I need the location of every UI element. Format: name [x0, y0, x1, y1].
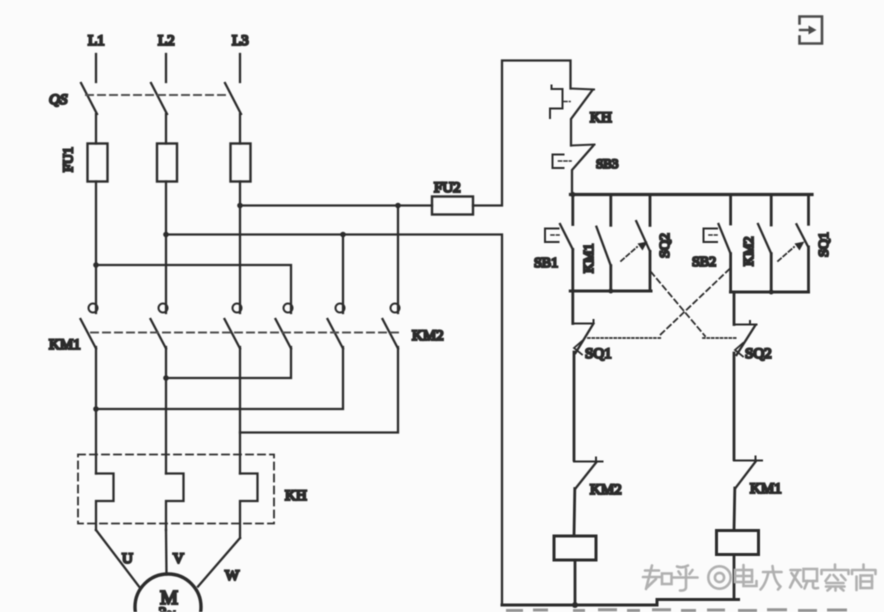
wire coil KM1 to rail — [733, 555, 736, 600]
junction KM2 feed B — [340, 232, 346, 238]
wire L3 drop — [239, 54, 241, 82]
wire bottom rail — [502, 600, 739, 606]
fuse FU1 — [62, 144, 251, 182]
heater element U — [96, 474, 114, 531]
contactor KM1 aux contact — [582, 195, 611, 292]
thermal relay KH contact — [550, 86, 612, 146]
wire L1 drop — [95, 54, 97, 82]
wire SQ2 to KM1 interlock — [733, 353, 736, 460]
wire phase B feed — [166, 235, 502, 606]
bus row2 right — [731, 291, 809, 294]
wire KM2 output crossover 1 — [166, 347, 291, 378]
watermark glyph zhi — [643, 566, 672, 590]
coil KM2 — [554, 536, 596, 560]
wire KM2 contact feeds — [343, 206, 398, 314]
heater element V — [166, 474, 184, 531]
wire KM1 interlock to coil — [733, 488, 737, 531]
junction KM1aux row2 — [608, 289, 613, 294]
junction crossover2 — [93, 406, 99, 412]
bus row2 left — [570, 290, 651, 293]
linkage dashed cross B — [659, 269, 730, 336]
motor M — [135, 574, 201, 612]
contactor KM2 main contacts — [276, 304, 444, 349]
junction crossover1 — [163, 375, 169, 381]
watermark glyph at — [708, 566, 730, 588]
wire phase A feed — [96, 265, 291, 313]
junction KM2aux row2 — [769, 290, 774, 295]
wire KM1 outputs down — [96, 347, 240, 474]
limit switch SQ2 NO — [621, 195, 673, 292]
contactor KM2 interlock contact — [574, 458, 622, 499]
fuse FU2 — [432, 180, 473, 215]
wire SB2 group down — [733, 292, 736, 325]
disconnect switch QS — [49, 83, 241, 114]
watermark glyph dian — [735, 565, 757, 586]
wire FU2 to control riser — [473, 61, 571, 206]
watermark glyph guan2 — [852, 565, 876, 591]
push button SB3 — [553, 145, 619, 196]
wire FU1 outputs — [96, 182, 240, 314]
limit switch SQ1 NC — [573, 320, 612, 362]
contactor KM1 interlock contact — [734, 457, 782, 498]
wire KM2 interlock to coil — [573, 489, 577, 537]
junction coil KM2 rail — [572, 602, 578, 608]
bus control top — [571, 193, 813, 196]
contactor KM1 main contacts — [49, 304, 242, 354]
limit switch SQ1 NO — [778, 195, 832, 293]
watermark glyph cha — [822, 565, 849, 591]
push button SB2 — [692, 195, 731, 293]
junction bus SB3 — [570, 192, 575, 197]
linkage dotted SQ1 — [588, 337, 662, 339]
icon export arrow — [800, 17, 823, 44]
wire W to motor — [198, 538, 240, 587]
junction L1 crossover feed — [93, 262, 99, 268]
wire SQ1 to KM2 interlock — [573, 352, 576, 460]
wire phase C feed to FU2 — [240, 204, 432, 206]
heater element W — [240, 474, 258, 539]
watermark glyph guan — [790, 569, 818, 589]
wire L2 drop — [165, 54, 167, 82]
wire coil KM2 to rail — [574, 560, 577, 605]
linkage dashes main contacts — [91, 332, 399, 334]
push button SB1 — [534, 195, 573, 292]
wire QS to FU1 — [96, 114, 240, 144]
linkage dashed cross A — [651, 272, 705, 336]
watermark glyph hu — [673, 566, 698, 591]
wire KM2 output crossover 2 — [96, 347, 343, 409]
junction L3/FU2 wire — [237, 203, 243, 209]
coil KM1 — [717, 531, 759, 555]
wire SB1 group down — [571, 291, 574, 324]
wire U to motor — [96, 530, 139, 587]
junction L2 control return — [163, 232, 169, 238]
watermark clipped bottom — [506, 608, 847, 612]
wire V to motor — [165, 530, 168, 575]
wire KM2 output crossover 3 — [240, 347, 398, 433]
limit switch SQ2 NC — [734, 321, 772, 362]
thermal relay KH heater box — [78, 455, 307, 524]
watermark glyph li — [761, 566, 782, 590]
contactor KM2 aux contact — [742, 195, 771, 293]
junction KM2 feed C — [395, 203, 401, 209]
linkage dotted SQ2 — [703, 337, 736, 339]
